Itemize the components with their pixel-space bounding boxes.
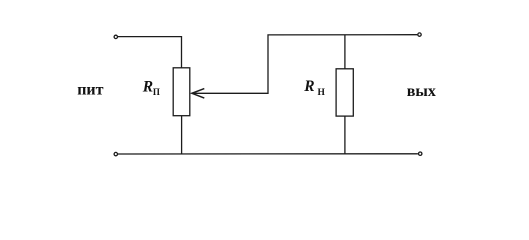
svg-text:пит: пит bbox=[77, 82, 103, 99]
svg-text:R: R bbox=[142, 79, 153, 96]
svg-text:Н: Н bbox=[318, 88, 326, 98]
svg-text:вых: вых bbox=[407, 83, 436, 100]
svg-text:П: П bbox=[153, 87, 160, 97]
svg-text:R: R bbox=[303, 78, 314, 95]
